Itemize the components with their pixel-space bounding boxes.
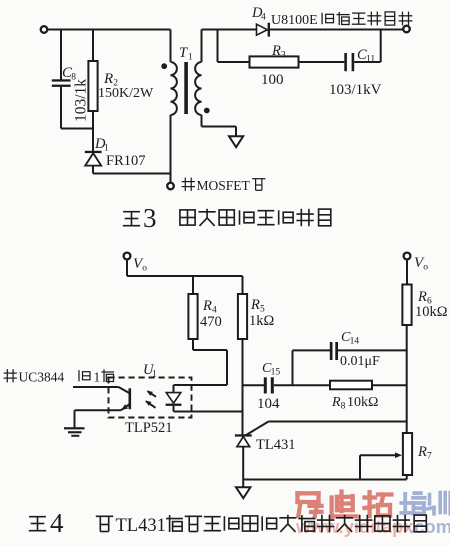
label R2 xyxy=(103,71,118,89)
shunt regulator TL431 xyxy=(235,434,252,487)
capacitor C11 xyxy=(344,53,354,71)
label C8 value 103/1k xyxy=(73,79,90,122)
wire secondary bottom xyxy=(202,115,237,136)
svg-text:o: o xyxy=(142,264,147,274)
label C11 xyxy=(357,47,375,65)
resistor R5 xyxy=(238,276,247,339)
label R6 xyxy=(417,289,432,307)
label R7 xyxy=(417,444,432,462)
svg-text:103/1k: 103/1k xyxy=(73,79,90,122)
label R4 xyxy=(202,298,217,316)
ground opto emitter xyxy=(64,427,85,437)
svg-text:7: 7 xyxy=(427,452,432,462)
MOSFET terminal node xyxy=(167,183,174,190)
watermark url xyxy=(295,516,450,537)
svg-text:4: 4 xyxy=(50,508,64,538)
wire primary bottom xyxy=(170,115,172,183)
transformer T1 core xyxy=(184,62,188,114)
label R3 xyxy=(271,43,286,61)
svg-text:3: 3 xyxy=(281,51,286,61)
svg-text:o: o xyxy=(423,263,428,273)
svg-text:R: R xyxy=(202,298,212,314)
label C15 value 104 xyxy=(257,396,280,412)
opto LED xyxy=(166,385,182,412)
potentiometer R7 xyxy=(403,433,412,475)
svg-text:T: T xyxy=(179,45,188,61)
svg-text:15: 15 xyxy=(271,368,281,378)
svg-text:R: R xyxy=(331,395,341,410)
label D4 xyxy=(251,5,266,23)
wire C14 branch xyxy=(293,350,331,385)
svg-text:TL431: TL431 xyxy=(256,437,295,453)
wire Vo left rail xyxy=(127,259,243,276)
label R6 value 10k xyxy=(415,304,448,320)
label U1 xyxy=(143,362,157,380)
svg-text:1: 1 xyxy=(94,370,101,385)
label TLP521 xyxy=(125,420,173,436)
svg-text:R: R xyxy=(271,43,281,59)
label jie-MOSFET-guan xyxy=(182,178,266,193)
wire R4 to LED anode xyxy=(193,350,227,385)
label C11 value 103/1kV xyxy=(329,82,382,98)
R7 wiper xyxy=(360,452,402,479)
svg-text:R: R xyxy=(103,71,113,87)
svg-text:10kΩ: 10kΩ xyxy=(415,304,448,320)
svg-text:FR107: FR107 xyxy=(106,153,146,169)
capacitor C14 xyxy=(330,342,338,360)
label R8 and value xyxy=(331,395,378,412)
watermark yiditapeixun xyxy=(298,492,450,518)
svg-text:14: 14 xyxy=(350,337,360,347)
transformer T1 primary winding xyxy=(171,62,177,115)
wire C11 riser xyxy=(354,30,381,63)
svg-text:4: 4 xyxy=(261,13,266,23)
wire secondary top xyxy=(202,30,257,63)
resistor R6 xyxy=(402,259,411,325)
label C14 xyxy=(341,330,359,347)
diode D4 xyxy=(257,23,271,37)
wire D1 to MOSFET node xyxy=(93,173,171,175)
svg-text:470: 470 xyxy=(200,314,222,330)
label R2 value 150K/2W xyxy=(98,86,154,101)
wire ref bus xyxy=(406,325,408,433)
label R5 value 1k xyxy=(249,313,275,329)
svg-text:150K/2W: 150K/2W xyxy=(98,86,154,101)
resistor R8 xyxy=(330,381,372,390)
svg-text:103/1kV: 103/1kV xyxy=(329,82,382,98)
resistor R2 xyxy=(88,30,97,152)
svg-text:TL431: TL431 xyxy=(116,516,166,536)
ground TL431 anode xyxy=(236,487,250,498)
caption figure 4 xyxy=(29,508,427,538)
wire R8 to ref bus xyxy=(372,384,407,386)
wire snubber drop xyxy=(218,30,250,63)
resistor R3 xyxy=(250,56,299,67)
wire D4 to output terminal xyxy=(270,29,403,31)
label C8 xyxy=(62,65,76,83)
diode D1 FR107 xyxy=(85,151,102,174)
svg-text:10kΩ: 10kΩ xyxy=(347,395,378,410)
wire C15 to R8 xyxy=(274,384,330,386)
wire LED anode xyxy=(174,384,228,386)
svg-text:R: R xyxy=(250,297,260,313)
svg-text:1kΩ: 1kΩ xyxy=(249,313,275,329)
svg-text:UC3844: UC3844 xyxy=(19,370,65,385)
polarity dot secondary xyxy=(204,108,210,114)
svg-text:1: 1 xyxy=(188,53,193,63)
Vo terminal right xyxy=(404,253,411,260)
Vo terminal left xyxy=(124,253,131,260)
optocoupler U1 box xyxy=(109,378,192,418)
output terminal node xyxy=(403,26,410,33)
label C15 xyxy=(262,361,280,378)
wire bottom rail xyxy=(243,475,407,480)
svg-text:1: 1 xyxy=(152,370,157,380)
wire cathode bus xyxy=(242,339,244,435)
svg-text:TLP521: TLP521 xyxy=(125,420,173,436)
input terminal node xyxy=(41,26,48,33)
svg-text:8: 8 xyxy=(341,402,346,412)
label T1 xyxy=(179,45,193,63)
capacitor C8 xyxy=(52,30,71,129)
resistor R4 xyxy=(188,276,197,350)
polarity dot primary xyxy=(161,63,167,69)
wire C8 to R2 branch xyxy=(61,128,93,130)
label R3 value 100 xyxy=(261,72,284,88)
transformer T1 secondary winding xyxy=(195,62,201,115)
label U8100E output note xyxy=(271,12,412,28)
label Vo right xyxy=(414,255,428,273)
capacitor C15 xyxy=(264,377,274,393)
light arrows xyxy=(145,391,156,408)
wire LED cathode xyxy=(174,411,243,413)
wire top rail xyxy=(48,29,171,31)
svg-text:100: 100 xyxy=(261,72,284,88)
label R5 xyxy=(250,297,265,315)
wire primary top xyxy=(170,30,172,63)
svg-text:MOSFET: MOSFET xyxy=(197,178,251,193)
label D1 value FR107 xyxy=(106,153,146,169)
svg-text:3: 3 xyxy=(143,203,157,233)
wire R3 to C11 xyxy=(299,61,345,63)
label Vo left xyxy=(133,256,147,274)
wire cathode to C15 xyxy=(243,384,265,386)
svg-text:0.01μF: 0.01μF xyxy=(340,354,380,369)
label TL431 xyxy=(256,437,295,453)
caption figure 3 xyxy=(123,203,331,233)
svg-text:104: 104 xyxy=(257,396,280,412)
svg-text:1: 1 xyxy=(104,144,109,154)
svg-text:R: R xyxy=(417,444,427,460)
svg-text:U8100E: U8100E xyxy=(271,13,318,28)
label R4 value 470 xyxy=(200,314,222,330)
TL431 ref wire xyxy=(246,422,407,436)
label jie-UC3844 pin1 xyxy=(4,369,115,384)
label C14 value 0.01uF xyxy=(340,354,380,369)
label D1 xyxy=(94,136,109,154)
ground secondary xyxy=(229,136,243,147)
opto phototransistor Q xyxy=(73,387,130,428)
svg-text:R: R xyxy=(417,289,427,305)
wire C14 to ref bus xyxy=(338,349,407,351)
